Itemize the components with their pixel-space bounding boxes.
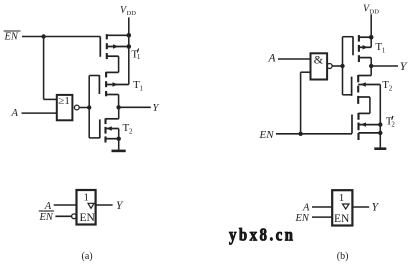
svg-text:1: 1: [137, 53, 141, 61]
svg-text:2: 2: [129, 128, 133, 136]
svg-text:DD: DD: [127, 10, 137, 17]
svg-text:A: A: [268, 52, 277, 64]
svg-text:Y: Y: [400, 59, 408, 73]
svg-text:(b): (b): [337, 251, 349, 262]
svg-text:Y: Y: [116, 200, 124, 212]
svg-text:EN: EN: [295, 213, 310, 224]
svg-text:A: A: [44, 201, 52, 212]
svg-text:Y: Y: [372, 202, 380, 214]
svg-text:EN: EN: [259, 129, 275, 141]
svg-text:2: 2: [391, 120, 395, 128]
svg-text:(a): (a): [82, 251, 93, 262]
svg-text:A: A: [302, 202, 310, 213]
svg-text:EN: EN: [39, 212, 54, 223]
svg-text:1: 1: [382, 47, 386, 55]
svg-text:≥1: ≥1: [58, 95, 70, 107]
svg-text:&: &: [314, 53, 324, 67]
svg-text:1: 1: [84, 192, 90, 204]
svg-text:EN: EN: [80, 212, 96, 224]
svg-text:EN: EN: [334, 213, 350, 225]
svg-text:DD: DD: [370, 8, 380, 15]
svg-text:1: 1: [339, 192, 345, 204]
svg-text:A: A: [11, 108, 19, 119]
svg-text:EN: EN: [4, 32, 19, 43]
svg-text:2: 2: [389, 84, 393, 92]
svg-text:Y: Y: [153, 103, 160, 114]
svg-text:1: 1: [140, 85, 144, 93]
svg-text:ybx8.cn: ybx8.cn: [229, 224, 293, 245]
